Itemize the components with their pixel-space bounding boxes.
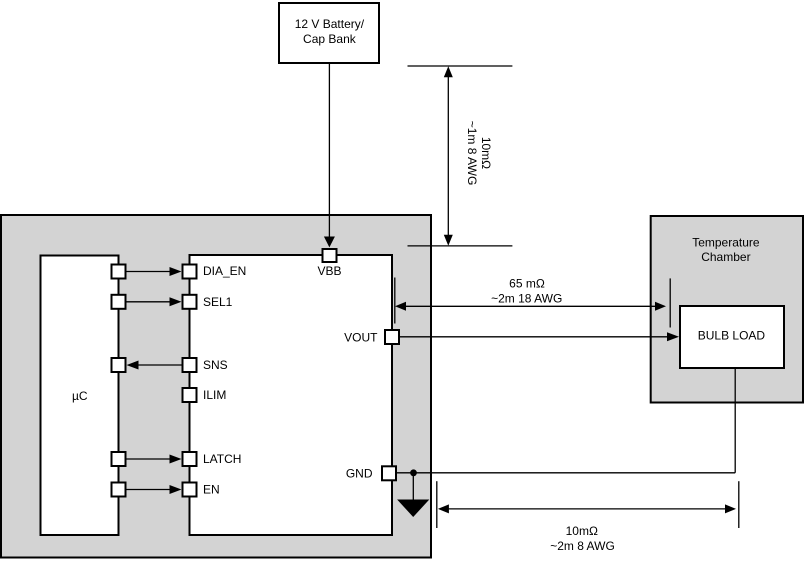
svg-text:~1m 8 AWG: ~1m 8 AWG bbox=[465, 121, 479, 186]
svg-text:VBB: VBB bbox=[317, 264, 341, 278]
dimension: supply harness 10mΩ ~1m 8 AWG (vertical) bbox=[408, 66, 513, 246]
svg-text:~2m 18 AWG: ~2m 18 AWG bbox=[491, 292, 562, 306]
pin ILIM bbox=[183, 388, 227, 402]
svg-text:Temperature: Temperature bbox=[692, 235, 760, 249]
dimension: sense harness 65 mΩ ~2m 18 AWG (horizontal) bbox=[395, 276, 670, 327]
pin SEL1 bbox=[183, 295, 233, 309]
svg-text:µC: µC bbox=[72, 389, 88, 403]
svg-text:VOUT: VOUT bbox=[344, 331, 378, 345]
wire: bulb load return to GND bbox=[397, 369, 735, 473]
wire: µC to LATCH (arrow right) bbox=[127, 455, 182, 464]
pin EN bbox=[183, 483, 220, 497]
µC port square for EN bbox=[112, 483, 126, 497]
pin SNS bbox=[183, 358, 228, 372]
wire: VOUT to bulb load (arrow right) bbox=[400, 332, 679, 341]
svg-text:~2m 8 AWG: ~2m 8 AWG bbox=[550, 539, 615, 553]
battery block: 12 V Battery / Cap Bank bbox=[279, 3, 379, 63]
svg-text:DIA_EN: DIA_EN bbox=[203, 264, 246, 278]
pin DIA_EN bbox=[183, 264, 247, 279]
svg-text:GND: GND bbox=[346, 467, 373, 481]
microcontroller U2 (µC) bbox=[41, 256, 119, 536]
µC port square for SEL1 bbox=[112, 295, 126, 309]
dimension: ground return 10mΩ ~2m 8 AWG (horizontal) bbox=[437, 481, 739, 553]
pin VOUT (right edge) bbox=[344, 330, 399, 345]
pin LATCH bbox=[183, 452, 242, 466]
ground symbol bbox=[397, 473, 429, 517]
svg-text:SEL1: SEL1 bbox=[203, 295, 233, 309]
wire: µC to SEL1 (arrow right) bbox=[127, 297, 182, 306]
board: gray test-board outline bbox=[1, 215, 431, 558]
svg-text:65 mΩ: 65 mΩ bbox=[509, 276, 545, 290]
svg-text:Cap Bank: Cap Bank bbox=[303, 32, 357, 46]
svg-text:SNS: SNS bbox=[203, 358, 228, 372]
svg-text:ILIM: ILIM bbox=[203, 388, 226, 402]
µC port square for SNS bbox=[112, 358, 126, 372]
temperature chamber enclosure bbox=[651, 216, 803, 403]
pin GND (right edge) bbox=[346, 466, 396, 480]
wire: µC to DIA_EN (arrow right) bbox=[127, 267, 182, 276]
wire: µC to EN (arrow right) bbox=[127, 485, 182, 494]
svg-text:10mΩ: 10mΩ bbox=[479, 137, 493, 169]
svg-text:Chamber: Chamber bbox=[701, 250, 750, 264]
device under test U1 (smart high-side switch) bbox=[190, 255, 393, 535]
pin VBB (top edge) bbox=[317, 249, 341, 278]
bulb load block bbox=[680, 306, 784, 368]
svg-text:EN: EN bbox=[203, 483, 220, 497]
svg-text:12 V Battery/: 12 V Battery/ bbox=[295, 17, 365, 31]
µC port square for DIA_EN bbox=[112, 265, 126, 279]
wire: SNS to µC (arrow left) bbox=[127, 361, 182, 370]
svg-text:LATCH: LATCH bbox=[203, 452, 241, 466]
wire: battery output to VBB pin (down arrow) bbox=[324, 64, 335, 247]
svg-text:10mΩ: 10mΩ bbox=[566, 524, 598, 538]
node: GND junction bbox=[410, 469, 417, 476]
svg-text:BULB LOAD: BULB LOAD bbox=[698, 329, 766, 343]
µC port square for LATCH bbox=[112, 452, 126, 466]
